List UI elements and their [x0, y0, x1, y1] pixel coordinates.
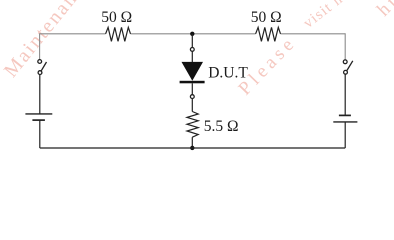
switch S2 lever: [347, 61, 353, 71]
label R1 50 ohm: [101, 9, 132, 26]
wire top-left horizontal (corner to R1): [40, 33, 106, 35]
battery B2 negative plate (short, top): [339, 114, 351, 116]
wire terminal to DUT anode: [191, 51, 193, 62]
node A junction dot (top of DUT branch): [190, 32, 194, 36]
svg-text:D.U.T: D.U.T: [208, 65, 248, 82]
label D.U.T: [208, 65, 248, 82]
switch S1 lever: [41, 62, 46, 71]
resistor R2 50-ohm right: [256, 27, 281, 41]
battery B1 negative plate (short): [32, 119, 45, 121]
wire bottom rail: [40, 147, 345, 149]
wire right rail upper (corner down to switch S2): [344, 33, 346, 59]
node B junction dot (bottom of branch): [190, 146, 194, 150]
watermark Please visit: [234, 32, 300, 100]
switch S1 bottom terminal: [38, 71, 42, 75]
wire left rail upper (corner down to switch S1): [39, 33, 41, 59]
battery B1 positive plate (long): [25, 113, 52, 115]
wire DUT cathode to lower terminal: [191, 83, 193, 94]
resistor R3 5.5-ohm vertical: [187, 112, 198, 138]
label R2 50 ohm: [251, 9, 282, 26]
switch S2 bottom terminal: [344, 70, 348, 74]
terminal circle below DUT: [190, 95, 194, 99]
svg-text:5.5 Ω: 5.5 Ω: [204, 118, 239, 135]
watermark Maintenance: [0, 0, 96, 82]
svg-text:50 Ω: 50 Ω: [251, 9, 282, 26]
wire node A down to terminal: [191, 34, 193, 47]
watermark visit: [301, 0, 347, 32]
wire lower terminal to R3: [191, 99, 193, 112]
wire B2 to bottom rail: [344, 122, 346, 148]
wire R3 to bottom node: [191, 137, 193, 148]
wire B1 to bottom rail: [39, 120, 41, 148]
svg-text:50 Ω: 50 Ω: [101, 9, 132, 26]
diode D.U.T (anode triangle): [182, 62, 203, 80]
watermark h corner: [373, 0, 394, 21]
wire S2 to battery B2: [344, 74, 346, 115]
wire top between node A and R2: [192, 33, 255, 35]
terminal circle above DUT: [190, 48, 194, 52]
wire top-right horizontal (R2 to corner): [281, 33, 346, 35]
battery B2 positive plate (long): [333, 121, 357, 123]
svg-text:htt: htt: [373, 0, 394, 21]
wire S1 to battery B1: [39, 75, 41, 114]
svg-text:Maintenance: Maintenance: [0, 0, 96, 82]
switch S1 top terminal: [38, 60, 42, 64]
switch S2 top terminal: [343, 60, 347, 64]
resistor R1 50-ohm left: [106, 27, 131, 41]
label R3 5.5 ohm: [204, 118, 239, 135]
svg-text:visit h: visit h: [301, 0, 347, 32]
wire top between R1 and node A: [131, 33, 193, 35]
diode D.U.T cathode bar: [180, 81, 205, 84]
